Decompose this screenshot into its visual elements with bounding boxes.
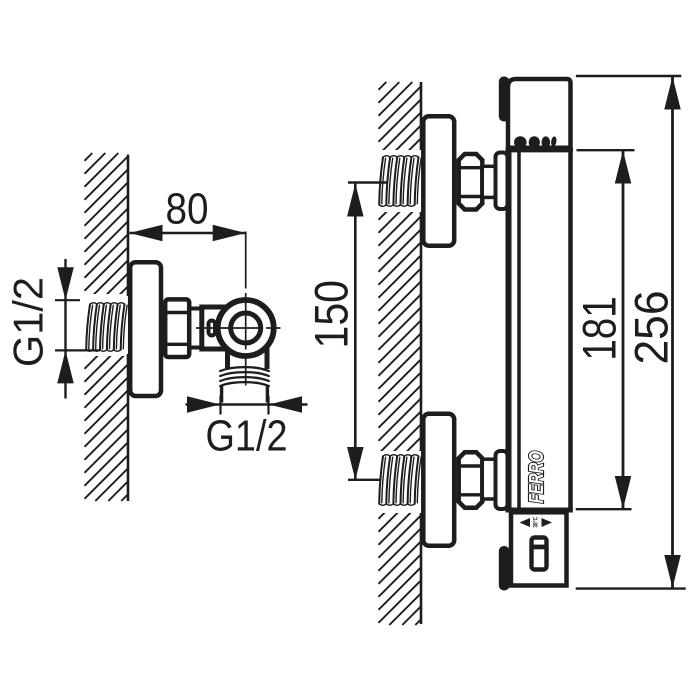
svg-text:38°C: 38°C — [533, 516, 540, 527]
svg-text:150: 150 — [306, 280, 358, 348]
svg-text:80: 80 — [165, 183, 208, 233]
svg-text:G1/2: G1/2 — [206, 411, 288, 460]
svg-text:256: 256 — [625, 290, 677, 364]
svg-text:FERRO: FERRO — [525, 451, 548, 504]
svg-text:G1/2: G1/2 — [4, 277, 51, 367]
svg-text:181: 181 — [574, 296, 626, 360]
